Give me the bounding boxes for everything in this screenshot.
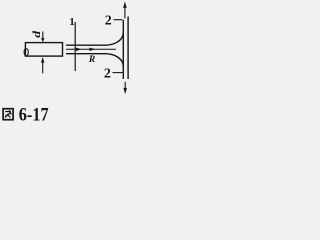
dimension arrow lower (points up to pipe bottom) — [42, 63, 44, 74]
section tick 2-2 bottom — [113, 72, 123, 74]
section line 1-1 — [74, 22, 76, 71]
caption 图 glyph — [3, 109, 13, 120]
down flow arrow — [124, 82, 126, 89]
pipe bore ellipse at left end — [24, 49, 28, 56]
svg-text:6-17: 6-17 — [19, 106, 49, 126]
wall inner line — [122, 20, 124, 79]
pipe (nozzle) body — [25, 43, 62, 57]
svg-text:2: 2 — [104, 66, 111, 81]
wall outer line — [127, 17, 129, 80]
section tick 2-2 top — [114, 19, 123, 21]
svg-text:R: R — [88, 55, 95, 65]
centerline — [66, 48, 116, 50]
jet lower boundary with flare curve — [66, 54, 123, 67]
svg-text:d: d — [30, 30, 42, 38]
flow arrowhead 2 — [89, 48, 95, 51]
up flow arrow — [124, 7, 126, 19]
svg-text:2: 2 — [105, 14, 112, 29]
jet upper boundary with flare curve — [66, 32, 123, 45]
svg-text:1: 1 — [69, 16, 75, 28]
flow arrowhead 1 — [76, 48, 82, 51]
dimension arrow upper (points down to pipe top) — [42, 32, 44, 39]
